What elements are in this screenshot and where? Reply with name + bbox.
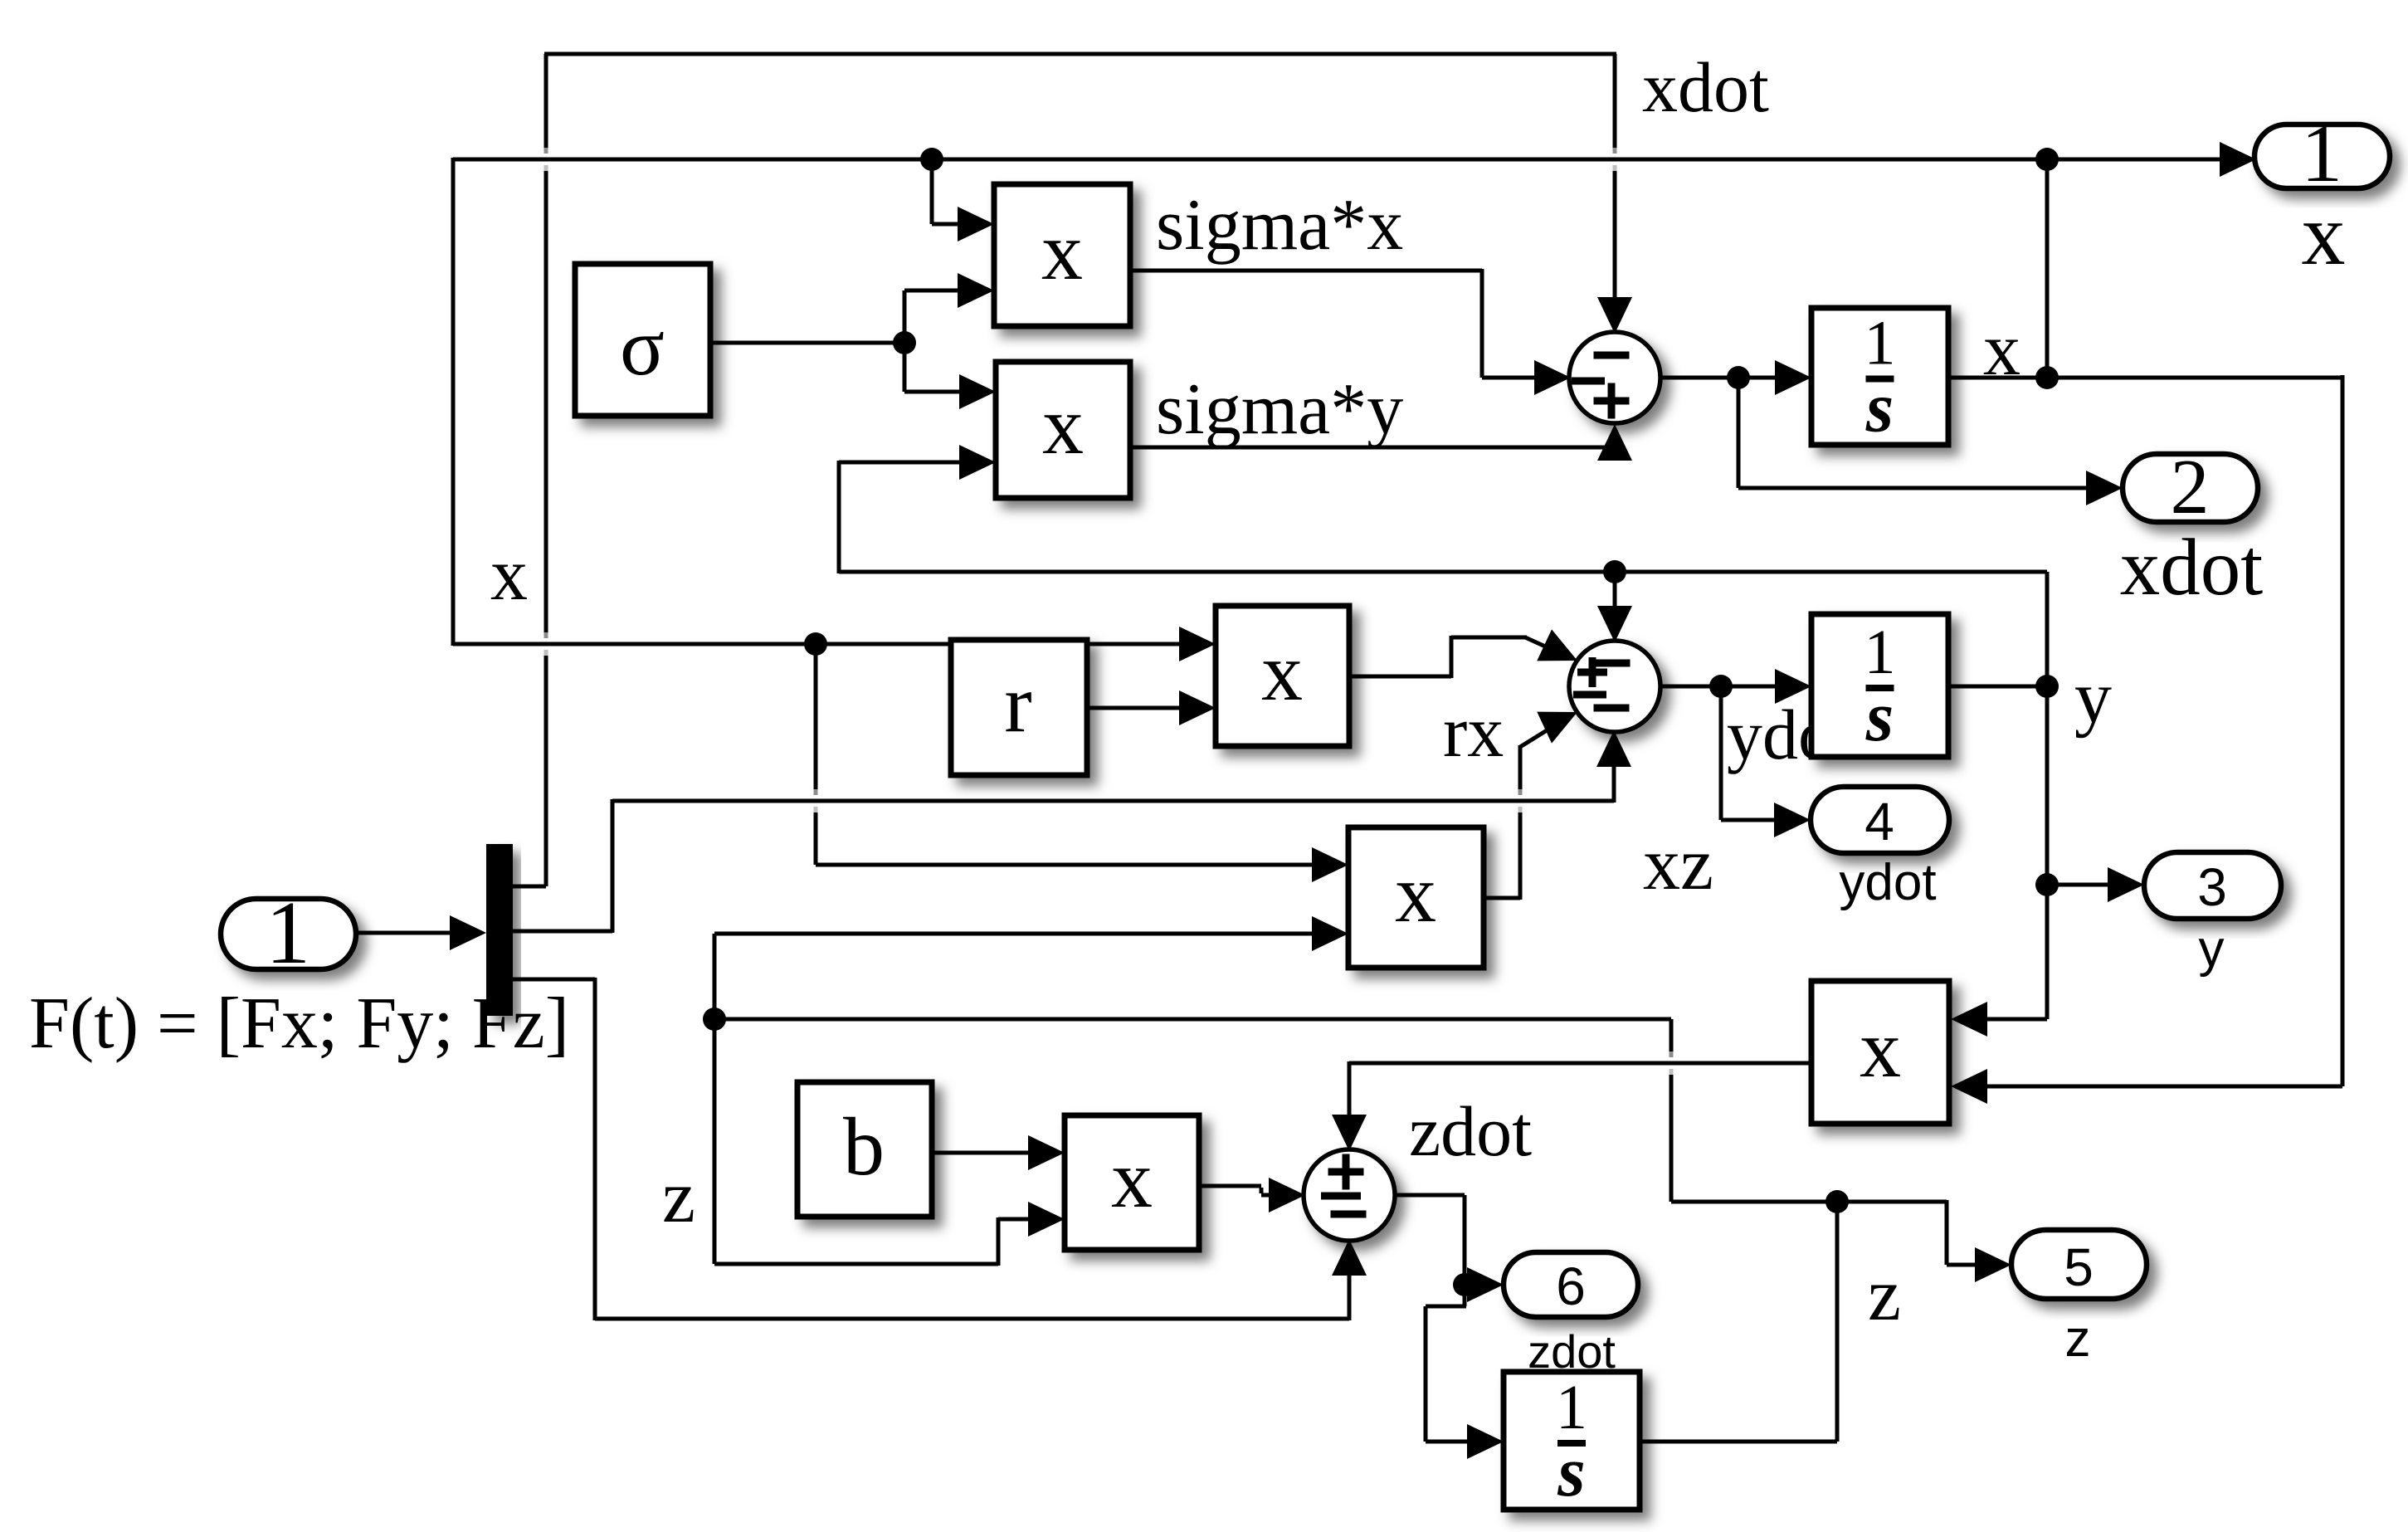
svg-text:x: x	[2302, 186, 2346, 283]
svg-text:z: z	[1868, 1254, 1901, 1336]
svg-text:s: s	[1865, 676, 1894, 756]
svg-text:x: x	[1860, 1003, 1901, 1095]
wire rx: Product_rx output to Sum2 upper-left input	[1349, 629, 1585, 678]
signal label z (left feedback)	[662, 1156, 695, 1238]
wire zdot: Sum3 output right then down to junction, to port 6 and Integrator3	[1395, 1195, 1504, 1459]
junction dot at Sum2 output (ydot)	[1709, 675, 1733, 698]
junction dot at Integrator1 output (x)	[2035, 366, 2059, 389]
svg-text:zdot: zdot	[1528, 1325, 1616, 1378]
output port 3 (y)	[2144, 852, 2281, 919]
wire y: Integrator2 output right to junction	[1948, 685, 2047, 689]
product Product_xz (x)	[1348, 827, 1484, 968]
junction dot on sigma line	[893, 331, 916, 354]
svg-text:x: x	[1395, 847, 1436, 939]
svg-text:3: 3	[2197, 857, 2227, 917]
port label zdot under output port 6	[1528, 1325, 1616, 1378]
wire y: branch right to output port 3	[2047, 867, 2144, 902]
signal label xz	[1643, 823, 1713, 905]
svg-text:rx: rx	[1443, 692, 1504, 773]
product Product_bz (x)	[1065, 1115, 1199, 1250]
signal label x (after Integrator1)	[1983, 309, 2020, 391]
wire z: junction right then down to output port 5	[1837, 1200, 2011, 1282]
wire x: Integrator1 output to junction, right to far-right vertical, down into Product_xy lower input	[1948, 375, 2342, 1104]
svg-text:sigma*y: sigma*y	[1156, 369, 1403, 450]
svg-text:sigma*x: sigma*x	[1156, 185, 1403, 266]
signal label ydot (clipped by Integrator2 block)	[1727, 695, 1854, 774]
wire z: junction left, up, left along z-row to left junction	[714, 1019, 1839, 1202]
wire x: branch down from x-row into Product_xz upper input	[816, 644, 1348, 882]
sum Sum3 (zdot)	[1304, 1149, 1395, 1241]
wire z: left junction up and right into Product_xz lower input	[714, 916, 1348, 1019]
svg-text:xz: xz	[1643, 823, 1713, 905]
wire z: Integrator3 output right and up to junction	[1640, 1202, 1837, 1442]
svg-text:y: y	[2074, 656, 2112, 739]
wire sigma: Gain_sigma output to junction then to both product inputs	[710, 273, 996, 409]
svg-text:x: x	[1041, 205, 1083, 297]
demux Demux1 (black bar)	[486, 844, 513, 1016]
output port 4 (ydot)	[1811, 787, 1949, 853]
svg-text:xdot: xdot	[2120, 523, 2264, 612]
wire xy: Product_xy output left then down into Sum3 top input	[1332, 1061, 1813, 1151]
svg-text:x: x	[1983, 309, 2020, 391]
output port 5 (z)	[2011, 1230, 2147, 1299]
wire x: top junction right to output port 1	[2047, 142, 2256, 177]
gain b block	[797, 1082, 932, 1217]
junction dot at Integrator2 output (y)	[2035, 675, 2059, 698]
junction dot at Sum3 output (zdot)	[1453, 1273, 1476, 1296]
gain r block	[951, 640, 1087, 775]
integrator Integrator2 (1/s)	[1811, 614, 1948, 757]
svg-text:5: 5	[2064, 1237, 2094, 1297]
port label z under output port 5	[2065, 1310, 2091, 1368]
output port 2 (xdot)	[2123, 444, 2258, 530]
wire Fz: demux output 3 down and across into Sum3 bottom input	[513, 978, 1367, 1320]
wire F(t): input port 1 into demux	[356, 915, 486, 950]
product Product_sigma_x (x)	[994, 184, 1130, 326]
svg-text:x: x	[490, 534, 528, 616]
signal label rx	[1443, 692, 1504, 773]
junction dot on z line right	[1825, 1190, 1849, 1213]
signal label x (left vertical)	[490, 534, 528, 616]
junction dot on z-row left	[703, 1008, 726, 1031]
svg-text:2: 2	[2171, 444, 2210, 530]
svg-text:s: s	[1865, 368, 1894, 447]
wire x: junction up then left along y=192 and down left edge to x-row	[453, 158, 2047, 661]
wire Fy: demux output 2 up and across into Sum2 bottom input	[513, 730, 1631, 933]
signal label xdot (top)	[1642, 47, 1769, 127]
wire z: left junction down and right into Product_bz lower input	[714, 1019, 1065, 1266]
signal label sigma*y	[1156, 369, 1403, 450]
integrator Integrator3 (1/s)	[1504, 1372, 1640, 1511]
wire bz: Product_bz output into Sum3 left input	[1199, 1178, 1305, 1212]
port label ydot under output port 4	[1839, 854, 1936, 911]
output port 6 (zdot)	[1504, 1252, 1638, 1317]
svg-text:b: b	[843, 1100, 885, 1193]
junction dot on x top line at port-1 branch	[2035, 148, 2059, 171]
sum Sum2 (ydot)	[1569, 641, 1660, 732]
svg-text:6: 6	[1556, 1256, 1586, 1316]
svg-text:z: z	[2065, 1310, 2091, 1368]
svg-text:zdot: zdot	[1409, 1091, 1532, 1171]
wire r: Gain_r output into Product_rx lower input	[1087, 690, 1216, 725]
port label y under output port 3	[2199, 920, 2225, 978]
wire sigma*y: Product_sigma_y output right then up into Sum1 bottom input	[1130, 424, 1632, 461]
output port 1 (x)	[2254, 107, 2390, 199]
label F(t) = [Fx; Fy; Fz]	[29, 983, 569, 1064]
svg-text:1: 1	[266, 884, 310, 983]
wire y: branch down into Sum2 top input	[1597, 572, 1632, 642]
sum Sum1 (xdot)	[1569, 332, 1660, 423]
junction dot at Sum1 output (xdot)	[1727, 366, 1750, 389]
wire y: junction down to second junction and into Product_xy upper input	[1951, 686, 2047, 1037]
integrator Integrator1 (1/s)	[1811, 308, 1948, 447]
wire Fx: demux output 1 up and across to Sum1 top input	[513, 54, 1632, 886]
wire xdot: Sum1 output to Integrator1 input with branch to port 2	[1660, 360, 2123, 505]
svg-text:x: x	[1111, 1133, 1153, 1225]
input port 1 (F(t))	[221, 884, 356, 983]
svg-text:z: z	[662, 1156, 695, 1238]
wire xz: Product_xz output up to Sum2 lower-left input	[1484, 696, 1585, 900]
svg-text:y: y	[2199, 920, 2225, 978]
wire x: branch down into Product_sigma_x upper input	[932, 159, 994, 242]
junction dot on x top line at sigma*x branch	[920, 148, 943, 171]
svg-text:ydot: ydot	[1839, 854, 1936, 911]
gain sigma block	[575, 264, 710, 416]
signal label y (after Integrator2)	[2074, 656, 2112, 739]
svg-text:4: 4	[1864, 792, 1894, 851]
product Product_sigma_y (x)	[996, 362, 1130, 498]
svg-text:s: s	[1557, 1432, 1585, 1511]
junction dot on x-row at Product_xz branch	[804, 632, 827, 656]
svg-text:σ: σ	[620, 300, 665, 393]
signal label sigma*x	[1156, 185, 1403, 266]
junction dot on y line above Sum2	[1603, 560, 1626, 583]
product Product_xy (x, mirrored inputs)	[1811, 981, 1949, 1124]
junction dot on y vertical at port-3 branch	[2035, 873, 2059, 896]
wire b: Gain_b output into Product_bz upper input	[932, 1135, 1065, 1170]
wire y: junction up then left along y=689 and into Product_sigma_y lower input	[839, 445, 2047, 686]
wire sigma*x: Product_sigma_x output right then down into Sum1 left input	[1130, 269, 1571, 395]
svg-text:x: x	[1261, 626, 1303, 718]
signal label zdot (near Sum3)	[1409, 1091, 1532, 1171]
port label x under output port 1	[2302, 186, 2346, 283]
product Product_rx (x)	[1216, 606, 1349, 746]
svg-text:x: x	[1042, 379, 1084, 471]
port label xdot under output port 2	[2120, 523, 2264, 612]
wire ydot: Sum2 output to Integrator2 input with branch to port 4	[1660, 669, 1811, 837]
signal label z (near port 5)	[1868, 1254, 1901, 1336]
svg-text:r: r	[1004, 657, 1031, 749]
svg-text:xdot: xdot	[1642, 47, 1769, 127]
